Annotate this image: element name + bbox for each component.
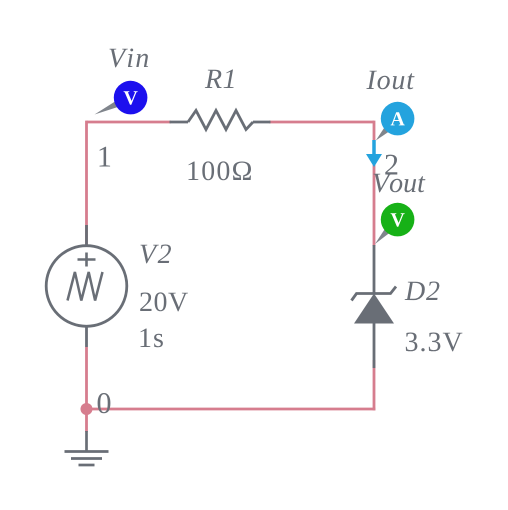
label Vout [374, 174, 426, 193]
junction node 0 dot [81, 403, 93, 415]
source V2 [46, 225, 127, 347]
current arrow Iout [366, 140, 382, 167]
ground [65, 431, 109, 465]
wire net0 left stub below source [85, 347, 88, 432]
wire net0 bottom horizontal [87, 408, 376, 411]
resistor R1 [170, 111, 271, 130]
wire net0 right vertical lower [373, 360, 376, 410]
label R1 [205, 70, 234, 89]
diode D2 (zener) [352, 245, 397, 368]
wire net2 right vertical upper [373, 121, 376, 246]
node label 1 [100, 147, 111, 167]
label V2 [141, 245, 172, 264]
wire net1 left vertical [85, 121, 88, 246]
value 3.3V [406, 333, 463, 352]
wire net1 top horizontal right segment [269, 121, 374, 124]
probe Iout [376, 102, 415, 141]
value 100ohm [189, 161, 252, 180]
node label 2 [385, 155, 397, 175]
value 20V [140, 292, 188, 311]
label Vin [110, 49, 149, 68]
value 1s [141, 329, 163, 348]
probe Vin [95, 81, 148, 115]
probe Vout [375, 203, 414, 244]
wire net1 top horizontal left segment [87, 121, 172, 124]
node label 0 [98, 393, 111, 413]
label D2 [405, 282, 440, 301]
label Iout [366, 71, 414, 90]
